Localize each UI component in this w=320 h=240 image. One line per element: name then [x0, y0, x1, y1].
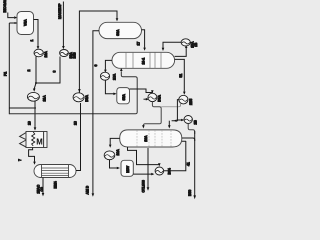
node junction dot at (36,83): [35, 82, 37, 84]
vessel V-100 (top-left separator): [17, 12, 34, 35]
wire E-100 outlet to HX left cap: [29, 148, 35, 162]
pump P-101: [27, 92, 39, 101]
wire P-101 discharge down to M-box: [34, 101, 36, 128]
svg-text:28A: 28A: [112, 73, 116, 80]
wire right exit line down to bottom arrow: [194, 131, 196, 196]
wire V-103 right outlet stubs: [182, 138, 195, 141]
svg-text:11A: 11A: [43, 95, 47, 102]
svg-text:MAKEUP: MAKEUP: [58, 3, 62, 19]
wire HX-100 right outlet up to P-103 line: [76, 103, 81, 171]
svg-text:D5A: D5A: [157, 94, 161, 101]
pump P-103: [73, 93, 84, 102]
wire branch from P-102 discharge joining junction: [36, 57, 60, 84]
svg-text:16A: 16A: [144, 135, 148, 142]
wire V-101 left outlet down to bottom exit: [93, 31, 99, 194]
svg-text:2B: 2B: [194, 120, 198, 125]
svg-text:8: 8: [52, 71, 56, 73]
svg-text:B64: B64: [168, 168, 172, 174]
svg-text:51: 51: [179, 74, 183, 78]
wire P-107 discharge to V-104: [110, 160, 118, 168]
svg-text:6: 6: [94, 65, 98, 67]
pump P-108: [155, 167, 164, 175]
svg-text:10A: 10A: [44, 51, 48, 58]
svg-text:1: 1: [30, 40, 34, 42]
svg-text:28: 28: [73, 121, 77, 125]
wire K-100 outlet left then down, branch to V-103 and right exit: [172, 100, 179, 121]
svg-text:HM4: HM4: [54, 181, 58, 188]
air cooler E-100 (M box with fan chevrons): [20, 133, 26, 147]
wire top line from x=79.4 corner to V-101: [79, 11, 117, 93]
wire P-105 discharge to V-103 top-left: [143, 102, 161, 126]
wire V-103 bottom outlet to bottom arrow: [147, 148, 149, 187]
wire P-100 discharge down: [35, 56, 37, 83]
vessel V-104 (small bottom drum): [121, 160, 133, 176]
wire V-104 right outlet to P-108 left: [133, 173, 151, 175]
node small arrow into P-105 left: [144, 98, 147, 100]
svg-text:1B: 1B: [194, 42, 198, 47]
svg-text:35A: 35A: [122, 94, 126, 101]
svg-text:D5A: D5A: [85, 94, 89, 101]
wire P-106 discharge back into T-100 top: [163, 42, 181, 48]
wire P-104 discharge to V-102: [105, 80, 113, 94]
wire feed1 into V-100: [8, 13, 14, 18]
svg-text:29: 29: [28, 121, 32, 125]
svg-text:AM D: AM D: [85, 185, 89, 194]
wire y=108 link to pump P-101 suction: [9, 107, 36, 109]
valve K-100 (circle right mid): [179, 95, 188, 104]
heat exchanger HX-100 (bottom-left shell and tube): [34, 165, 76, 178]
svg-text:BIOGAS: BIOGAS: [3, 0, 7, 13]
pump P-109 (right edge recycle pump): [184, 116, 192, 124]
svg-text:7: 7: [18, 159, 22, 161]
vessel V-101 (top horizontal drum): [99, 22, 142, 38]
pump P-104 feed from T-100 left: [105, 60, 112, 69]
pump P-104: [100, 72, 109, 80]
svg-text:F1: F1: [4, 72, 8, 76]
vessel V-102 (small drum): [117, 88, 130, 104]
svg-text:16-1: 16-1: [141, 58, 145, 65]
wire V-102 right outlet to P-105: [130, 89, 153, 93]
wire T-100 right outlet 2 down to K-100: [175, 59, 185, 91]
svg-text:17: 17: [136, 42, 140, 46]
wire T-100 right outlet to P-106 (top right pump): [175, 47, 187, 56]
wire P-109 discharge joining right exit line: [188, 124, 195, 135]
svg-text:B50: B50: [188, 190, 192, 196]
wire left vertical line x=9.3: [8, 23, 10, 114]
wire V-101 right outlet to LV top: [142, 30, 145, 48]
svg-text:2B5: 2B5: [189, 99, 193, 105]
pump P-106: [181, 39, 190, 46]
vessel V-103 (bottom right horizontal drum): [120, 130, 182, 147]
vessel T-100 (long horizontal treater): [112, 52, 175, 68]
wire main recycle line y=113.8: [9, 71, 137, 114]
wire feed2 down to pump P-102: [62, 2, 64, 47]
pump P-100: [34, 49, 43, 57]
svg-text:C9: C9: [40, 187, 44, 191]
wire HX-100 bottom outlet to bottom edge: [42, 178, 44, 194]
wire P-108 discharge up to V-103 right: [164, 141, 186, 171]
wire V-103 bottom-left outlet jog to P-108 top: [128, 147, 160, 165]
svg-text:OTL990: OTL990: [142, 180, 146, 193]
svg-text:V5A: V5A: [24, 19, 28, 26]
svg-text:41: 41: [186, 162, 190, 166]
svg-text:2: 2: [27, 70, 31, 72]
wire junction to pump P-101: [34, 83, 36, 89]
svg-text:M: M: [36, 137, 43, 146]
wire V-103 left outlet to P-107: [110, 138, 120, 144]
svg-text:30A: 30A: [116, 29, 120, 36]
pump P-107: [104, 151, 115, 160]
wire V-100 bottom outlet to left down line: [9, 22, 17, 24]
svg-text:M9V: M9V: [126, 165, 130, 173]
wire V-100 top outlet to pump P-100: [34, 20, 39, 47]
pump P-102: [60, 50, 69, 57]
svg-text:19A: 19A: [116, 149, 120, 156]
svg-text:10B: 10B: [73, 52, 77, 59]
pump P-105: [148, 93, 157, 101]
